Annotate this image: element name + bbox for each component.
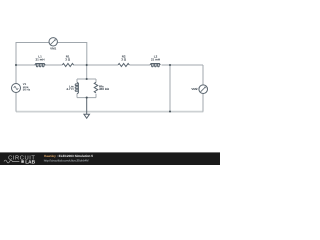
label R1 3ohm	[65, 55, 71, 62]
voltmeter VM1	[49, 38, 57, 46]
wire node A to L1	[16, 64, 36, 66]
svg-text:4.7 H: 4.7 H	[66, 87, 73, 91]
label L1 21 mH	[35, 55, 44, 62]
wire R2 to L2	[129, 64, 150, 66]
svg-text:3 Ω: 3 Ω	[121, 57, 127, 61]
resistor R2	[118, 63, 129, 66]
wire left vertical top	[15, 42, 17, 65]
wire R1 to R2 through node B	[73, 64, 118, 66]
wire Lm leads	[76, 79, 78, 98]
wire secondary short vertical	[169, 65, 171, 112]
svg-text:VM1: VM1	[50, 46, 57, 50]
svg-text:21 mH: 21 mH	[151, 57, 160, 61]
svg-text:50 Hz: 50 Hz	[23, 88, 31, 92]
svg-text:LAB: LAB	[25, 159, 35, 165]
label R2 3ohm	[121, 55, 127, 62]
svg-text:http://circuitlab.com/c6urc35u: http://circuitlab.com/c6urc35uhb4kf	[44, 158, 89, 162]
ground	[84, 98, 90, 119]
wire right corner down to VM2 top	[202, 65, 204, 85]
label V1 sine 50Hz	[23, 82, 31, 92]
inductor Lm (vertical, loops left)	[75, 82, 78, 94]
CircuitLab logo	[4, 154, 36, 165]
node A junction	[15, 64, 17, 66]
svg-text:VM2: VM2	[191, 87, 198, 91]
node box-bottom junction	[86, 97, 88, 99]
svg-text:21 mH: 21 mH	[35, 57, 44, 61]
voltage source V1	[12, 84, 21, 93]
wire right vertical of top loop	[86, 42, 88, 65]
wire VM2 bottom to bottom rail	[202, 94, 204, 112]
label L2 21 mH	[151, 55, 160, 62]
bottom rail wire (light)	[16, 111, 203, 113]
wire top loop	[16, 42, 87, 44]
node rail junction	[169, 110, 171, 112]
wire V1 bottom to bottom rail	[15, 93, 17, 112]
wire parallel box top	[77, 78, 96, 80]
node B junction	[86, 64, 88, 66]
node box-top junction	[86, 78, 88, 80]
label Lm 4.7 H	[66, 84, 74, 91]
wire stub main to box	[86, 65, 88, 79]
svg-text:450 kΩ: 450 kΩ	[99, 87, 110, 91]
node C junction	[169, 64, 171, 66]
voltmeter VM2	[199, 85, 208, 94]
wire L2 to node C and right corner	[162, 64, 204, 66]
inductor L2	[150, 64, 160, 67]
svg-text:3 Ω: 3 Ω	[65, 57, 71, 61]
label Rfe 450 kohm	[99, 84, 110, 91]
footer bar	[0, 152, 220, 165]
inductor L1	[35, 64, 45, 67]
wire L1 to R1	[45, 64, 63, 66]
wire parallel box bottom	[77, 97, 96, 99]
resistor Rfe (vertical)	[94, 82, 98, 93]
wire node A down to V1 top	[15, 65, 17, 84]
wire Rfe leads	[95, 79, 97, 98]
resistor R1	[62, 63, 73, 66]
